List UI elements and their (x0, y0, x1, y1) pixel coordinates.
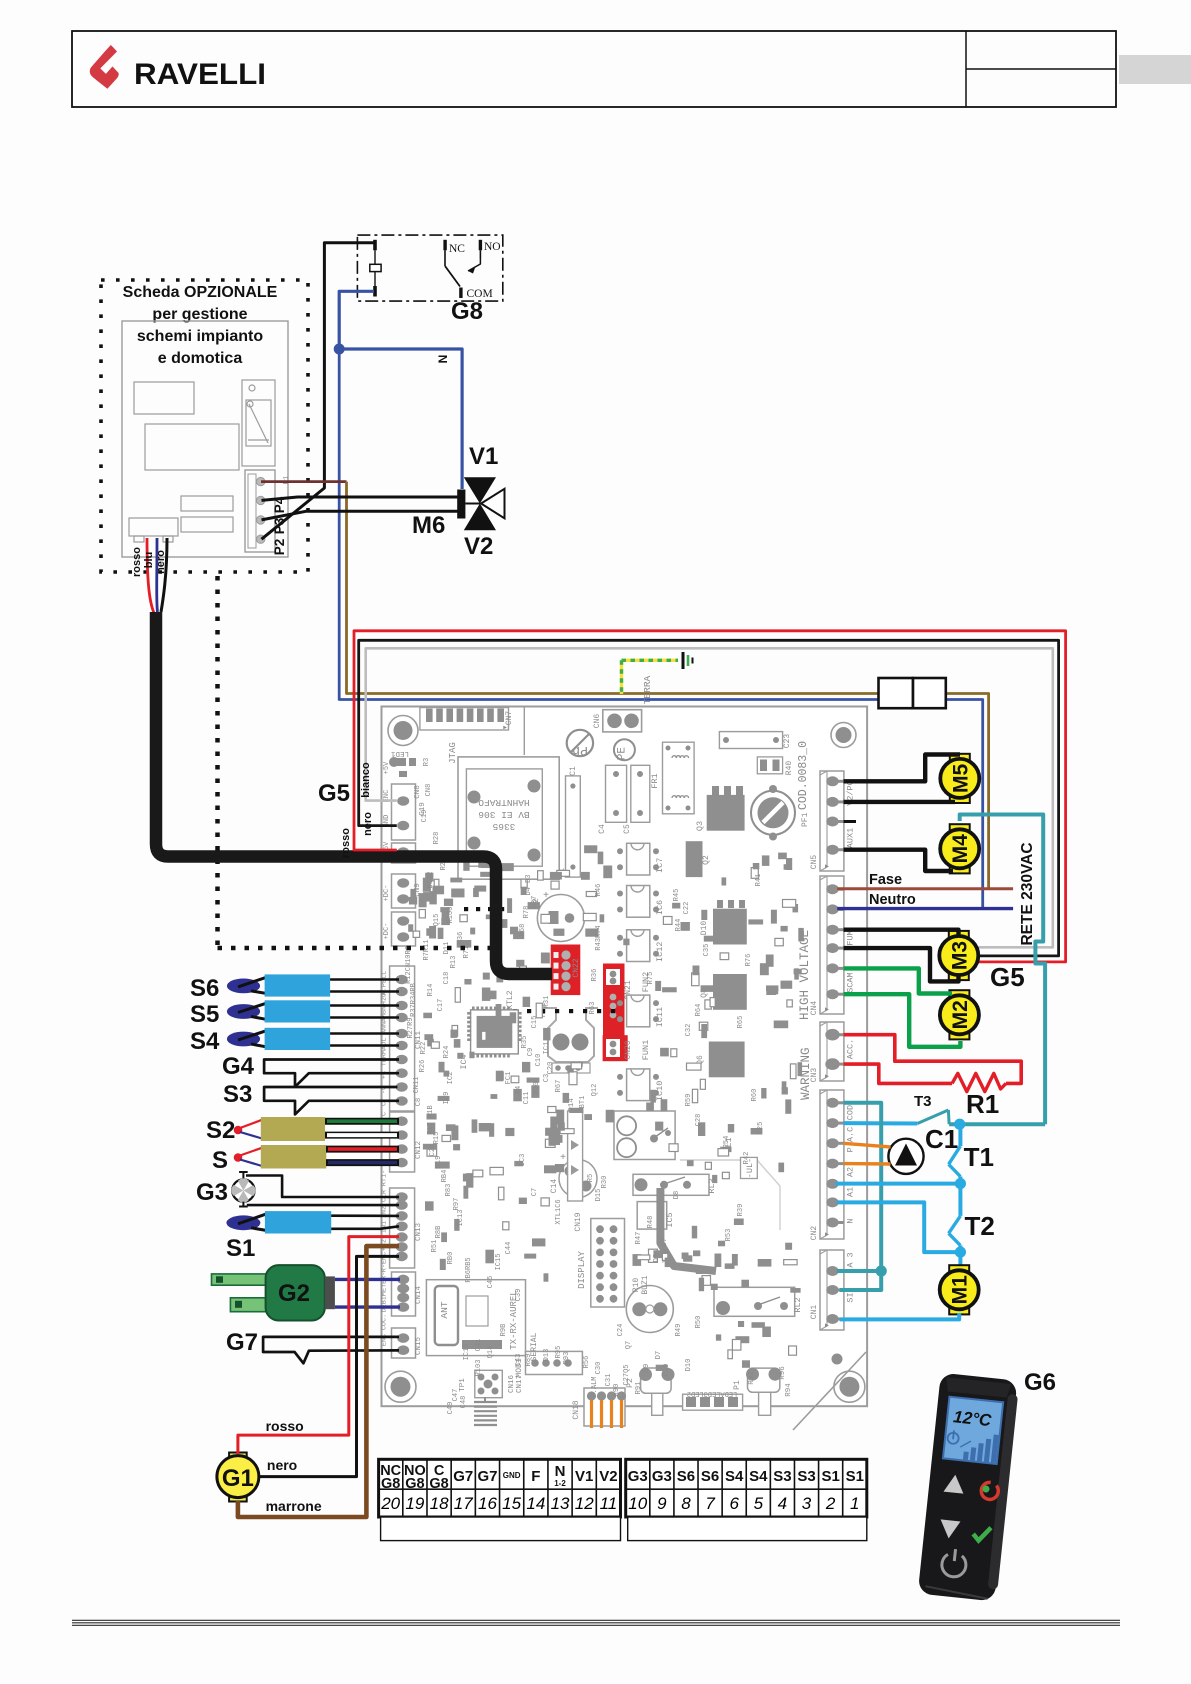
svg-text:17: 17 (454, 1494, 473, 1513)
svg-text:C22: C22 (683, 902, 691, 915)
svg-text:CN5: CN5 (810, 855, 819, 870)
pcb board outline (382, 707, 868, 1407)
svg-text:C8: C8 (415, 1098, 423, 1106)
heatsink HS1 (544, 1008, 598, 1062)
svg-text:R43R74: R43R74 (595, 925, 603, 950)
svg-text:R49: R49 (675, 1324, 683, 1337)
svg-text:blu: blu (143, 552, 155, 569)
wires S6 to CN11 (330, 978, 399, 981)
svg-text:XTL2: XTL2 (506, 990, 515, 1009)
relay G8 switch blade (445, 266, 460, 287)
wire lightblue T2 upper (958, 1184, 962, 1216)
sensor S6 body (265, 974, 331, 996)
svg-text:COD.0083_0: COD.0083_0 (797, 741, 810, 810)
svg-text:R17 R1B: R17 R1B (427, 1105, 435, 1134)
pump C1 (888, 1139, 923, 1174)
svg-text:G2: G2 (278, 1280, 310, 1307)
antenna coil (474, 1401, 497, 1403)
valve V2 triangle (464, 504, 496, 531)
svg-text:C26: C26 (429, 1144, 437, 1157)
svg-text:DISPLAY: DISPLAY (577, 1251, 587, 1289)
svg-text:▶: ▶ (825, 1231, 829, 1238)
svg-text:C23: C23 (783, 734, 792, 749)
sensor S5 body (265, 1000, 331, 1022)
svg-text:▶: ▶ (503, 724, 507, 731)
wire brown fase down to board bus (347, 482, 879, 694)
node blue junction (334, 344, 345, 355)
svg-text:G5: G5 (318, 780, 350, 807)
header frame (72, 31, 1116, 107)
wire blue from G8 coil to node N (339, 291, 374, 349)
svg-text:BV EI 306: BV EI 306 (478, 809, 530, 820)
wire white S2 to CN12 (325, 1132, 399, 1139)
svg-text:13: 13 (551, 1494, 570, 1513)
svg-text:R96: R96 (779, 1366, 787, 1380)
svg-text:R59: R59 (685, 1094, 693, 1107)
svg-text:P.ALM: P.ALM (591, 1376, 599, 1397)
wires G2 navy to CN14 (335, 1278, 400, 1281)
svg-text:S1: S1 (226, 1235, 255, 1262)
wire neutro (837, 907, 1013, 910)
svg-text:IC12: IC12 (655, 942, 665, 962)
svg-text:18: 18 (430, 1494, 449, 1513)
svg-text:D9: D9 (643, 1364, 651, 1372)
led strip LEDALED3LED2 (683, 1394, 743, 1410)
svg-text:Q12: Q12 (591, 1084, 599, 1097)
svg-text:R100: R100 (447, 907, 455, 924)
svg-text:R94: R94 (785, 1383, 793, 1397)
svg-text:D13: D13 (543, 1349, 551, 1362)
svg-text:Q3: Q3 (695, 821, 705, 831)
svg-text:▶: ▶ (825, 863, 829, 870)
wire marrone G1 to CN13 (238, 1246, 399, 1517)
wire teal T3 junction to RETE (949, 1122, 1045, 1126)
svg-text:CN6: CN6 (593, 714, 602, 729)
svg-text:R76: R76 (745, 954, 753, 967)
svg-text:IC16: IC16 (463, 1344, 471, 1361)
svg-text:P.A.C.: P.A.C. (846, 1122, 856, 1153)
svg-text:R78: R78 (523, 906, 531, 919)
buzzer BUZ1 (626, 1286, 673, 1333)
sensor S6 bulb (227, 979, 260, 994)
wire lightblue to M1 (958, 1252, 962, 1266)
svg-text:RB4: RB4 (441, 1170, 449, 1183)
motor M3 (949, 931, 969, 941)
wire green S2 to CN12 (325, 1118, 399, 1125)
svg-text:R53: R53 (725, 1229, 733, 1242)
svg-text:4: 4 (778, 1494, 787, 1513)
svg-text:6: 6 (729, 1494, 739, 1513)
capacitor C23 (719, 732, 782, 749)
svg-text:+: + (543, 891, 549, 902)
svg-text:G6: G6 (1024, 1369, 1056, 1396)
capacitor C1 film (566, 776, 581, 877)
wire M4 black (844, 850, 954, 871)
gray tab top right (1119, 55, 1191, 84)
svg-text:RETE 230VAC: RETE 230VAC (1019, 842, 1036, 945)
svg-text:R19: R19 (435, 1156, 443, 1169)
svg-text:C35: C35 (703, 944, 711, 957)
svg-text:CN2: CN2 (810, 1226, 819, 1241)
svg-text:M3: M3 (948, 941, 971, 970)
svg-text:N: N (555, 1463, 566, 1480)
svg-text:R83: R83 (445, 1184, 453, 1197)
svg-text:CN12: CN12 (415, 1141, 423, 1159)
pcb mounting holes (388, 716, 418, 746)
svg-text:TP1: TP1 (459, 1378, 467, 1392)
sensor S4 body (265, 1028, 331, 1050)
svg-text:IC10: IC10 (655, 1081, 665, 1101)
svg-text:R51: R51 (431, 1240, 439, 1253)
svg-text:C11: C11 (523, 1092, 531, 1105)
relay G8 contact NO (479, 240, 482, 251)
switch T1 (949, 1146, 961, 1164)
optocoupler IC5 (637, 1202, 667, 1230)
svg-text:D8: D8 (673, 1191, 681, 1199)
svg-text:LEDALED3LED2: LEDALED3LED2 (687, 1389, 737, 1397)
capacitor C4 (606, 765, 627, 822)
connector CN3 (820, 1022, 844, 1081)
svg-text:R95: R95 (555, 1346, 563, 1359)
svg-text:S3: S3 (773, 1468, 791, 1485)
wire lightblue A1 (837, 1202, 961, 1252)
svg-text:rosso: rosso (131, 547, 143, 577)
dotted cable route from optional board to CN22 (215, 576, 220, 948)
svg-text:G1: G1 (222, 1465, 254, 1492)
svg-text:LED1: LED1 (391, 749, 410, 757)
gear motor G2 connector (325, 1276, 335, 1309)
relay RL1 (614, 1111, 675, 1160)
svg-text:Pb: Pb (572, 743, 588, 758)
UL box (741, 1157, 758, 1178)
svg-text:R41: R41 (755, 874, 763, 887)
svg-text:IC1: IC1 (543, 1042, 551, 1055)
wire black P3 to valve (262, 511, 459, 520)
svg-text:20: 20 (380, 1494, 400, 1513)
svg-text:COC.: COC. (381, 1314, 389, 1330)
svg-text:PF1: PF1 (801, 812, 810, 827)
wire fase (837, 887, 1013, 890)
svg-text:7: 7 (705, 1494, 715, 1513)
node AL3 junction (876, 1265, 887, 1276)
sensor S2 body (261, 1117, 325, 1141)
wires M5 black (844, 755, 961, 782)
svg-text:F: F (531, 1468, 540, 1485)
wires S5 to CN11 (330, 1004, 399, 1007)
wire blue neutro down to board bus (339, 349, 878, 700)
svg-text:G3: G3 (196, 1179, 228, 1206)
terminal block table right (626, 1459, 867, 1517)
sensor S4 bulb (227, 1032, 260, 1047)
svg-text:C25: C25 (757, 1122, 765, 1135)
ground symbol terra (682, 652, 685, 669)
connector CN1 (820, 1250, 844, 1330)
wire lightblue A2 (836, 1182, 961, 1186)
svg-text:C49: C49 (447, 1402, 455, 1415)
relay RL2 (714, 1287, 795, 1316)
node T3 junction (954, 1119, 965, 1130)
svg-text:CN14: CN14 (415, 1286, 423, 1305)
motor M2 (949, 990, 969, 1000)
svg-text:+DC-: +DC- (383, 885, 391, 902)
svg-text:R30: R30 (601, 1176, 609, 1189)
svg-text:rosso: rosso (340, 828, 352, 858)
svg-text:R42: R42 (743, 1152, 751, 1165)
wire navy S to CN12 (326, 1159, 399, 1166)
microcontroller IC4 (471, 1010, 519, 1054)
svg-text:9: 9 (657, 1494, 667, 1513)
svg-text:R63: R63 (589, 1002, 597, 1015)
svg-text:R68: R68 (519, 924, 527, 937)
connector CN13 (390, 1188, 415, 1268)
wires M3 black (844, 930, 959, 936)
svg-text:NO: NO (484, 241, 501, 253)
svg-text:R35: R35 (521, 1036, 529, 1049)
node T2 junction (955, 1247, 966, 1258)
connector CN4 (820, 876, 844, 1014)
svg-text:RB0: RB0 (447, 1252, 455, 1265)
serial header MOD1 (526, 1351, 583, 1374)
probe G7 (263, 1337, 399, 1363)
svg-text:R65: R65 (737, 1016, 745, 1029)
svg-text:CN22: CN22 (572, 958, 581, 977)
sensor S1 bulb (226, 1215, 260, 1230)
svg-text:▶: ▶ (825, 1322, 829, 1329)
svg-text:Q2: Q2 (702, 855, 711, 865)
svg-text:FUN1: FUN1 (641, 1040, 651, 1060)
svg-text:S1: S1 (821, 1468, 839, 1485)
svg-text:M2: M2 (949, 1000, 972, 1029)
optional board pcb outline (122, 321, 288, 557)
svg-text:C43: C43 (515, 1354, 523, 1367)
mosfet Q6 (709, 1042, 745, 1078)
wires orange to C1 (844, 1143, 891, 1147)
svg-text:TERMAUL: TERMAUL (381, 1038, 389, 1067)
svg-text:G5: G5 (990, 962, 1025, 992)
svg-text:R46: R46 (595, 884, 603, 897)
svg-text:IC2: IC2 (447, 1072, 455, 1085)
motor M1 (949, 1265, 969, 1275)
isolation slot lines (793, 1352, 866, 1430)
resistor R40 (757, 757, 782, 774)
svg-text:D7: D7 (661, 1238, 669, 1246)
wire blu from optional board (155, 538, 159, 612)
svg-text:R20: R20 (533, 1082, 541, 1095)
svg-text:FR1: FR1 (650, 773, 660, 788)
button P1 (748, 1368, 780, 1392)
svg-text:R91: R91 (635, 1382, 643, 1395)
svg-text:R44: R44 (675, 919, 683, 932)
svg-text:V1: V1 (575, 1468, 593, 1485)
svg-text:C17: C17 (437, 999, 445, 1012)
svg-text:R5: R5 (587, 1174, 595, 1182)
connector JTAG CN7 (420, 708, 509, 731)
svg-text:C1: C1 (925, 1124, 958, 1154)
svg-text:D1D2: D1D2 (427, 872, 435, 889)
svg-text:3: 3 (802, 1494, 812, 1513)
transformer T1 HAHNTRAFO (458, 757, 559, 879)
svg-text:Q15: Q15 (433, 914, 441, 927)
svg-text:ANT: ANT (439, 1301, 450, 1318)
svg-text:C19: C19 (421, 810, 429, 823)
svg-text:Q14: Q14 (487, 1346, 495, 1359)
svg-text:12°C: 12°C (952, 1407, 992, 1430)
svg-text:D10: D10 (685, 1359, 693, 1372)
svg-text:marrone: marrone (266, 1498, 322, 1514)
svg-text:P1: P1 (733, 1380, 742, 1390)
svg-text:AUX1: AUX1 (846, 828, 856, 848)
capacitor C5 (631, 765, 650, 822)
svg-text:R47: R47 (635, 1232, 643, 1245)
svg-text:ACC.: ACC. (846, 1039, 856, 1059)
header strip (568, 1111, 583, 1201)
svg-text:IC13: IC13 (457, 1210, 465, 1227)
svg-text:PE: PE (616, 747, 628, 761)
wire rosso G1 to CN13 (238, 1237, 399, 1454)
svg-text:V2: V2 (599, 1468, 617, 1485)
svg-text:+5V: +5V (383, 761, 391, 774)
svg-text:A 3: A 3 (846, 1252, 856, 1267)
svg-text:CN11: CN11 (413, 1077, 421, 1094)
svg-text:nero: nero (155, 550, 167, 574)
svg-text:C20: C20 (547, 1062, 555, 1075)
pcb SMD components scatter (450, 878, 462, 883)
connector CN8 encoder G5 (392, 784, 416, 840)
svg-text:R50: R50 (695, 1316, 703, 1329)
via row (513, 1009, 517, 1013)
svg-text:C14: C14 (550, 1179, 559, 1194)
valve V1 triangle (464, 477, 496, 503)
svg-text:IC7: IC7 (655, 858, 665, 873)
test point TP1 (475, 1370, 503, 1397)
svg-text:JTAG: JTAG (448, 742, 458, 764)
svg-text:C4: C4 (598, 824, 607, 834)
wire rosso from optional board (147, 538, 154, 613)
svg-text:T3: T3 (914, 1093, 932, 1110)
svg-text:IC11: IC11 (655, 1007, 665, 1027)
svg-text:CN20: CN20 (624, 1040, 633, 1059)
wire nero from optional board (161, 538, 167, 612)
connector CN12 (390, 1112, 415, 1172)
svg-text:C27Q5: C27Q5 (623, 1364, 631, 1385)
svg-text:D15: D15 (595, 1189, 603, 1202)
svg-text:S: S (212, 1147, 228, 1174)
svg-text:C5: C5 (623, 824, 632, 834)
svg-text:FUM: FUM (846, 930, 856, 945)
terminal block table left (379, 1459, 621, 1517)
svg-text:R14: R14 (427, 984, 435, 997)
svg-text:M1: M1 (949, 1275, 972, 1304)
svg-text:1: 1 (850, 1494, 859, 1513)
svg-text:C1: C1 (569, 766, 578, 776)
svg-text:RL2: RL2 (793, 1297, 803, 1312)
svg-text:R24: R24 (443, 1046, 451, 1059)
svg-text:V2: V2 (464, 533, 493, 560)
connector CN18 with orange wires (584, 1388, 625, 1426)
svg-text:S4: S4 (725, 1468, 744, 1485)
svg-text:P2: P2 (272, 539, 287, 556)
svg-text:IC15: IC15 (495, 1254, 503, 1271)
svg-text:R54: R54 (723, 1136, 731, 1149)
svg-text:HIGH VOLTAGE: HIGH VOLTAGE (798, 930, 812, 1020)
svg-text:T2: T2 (965, 1211, 995, 1241)
svg-text:R13: R13 (450, 956, 458, 969)
trace IC8 (660, 1188, 716, 1271)
svg-text:S4: S4 (749, 1468, 768, 1485)
wire nero loop around board (359, 640, 1059, 956)
svg-text:R9B: R9B (500, 1324, 508, 1337)
svg-text:S4: S4 (190, 1028, 220, 1055)
wire red S to CN12 (326, 1146, 399, 1153)
svg-text:S3: S3 (797, 1468, 815, 1485)
fan G3 (239, 1171, 248, 1173)
wires M2 green (844, 968, 953, 993)
relay G8 box (357, 235, 502, 301)
svg-text:R45: R45 (673, 889, 681, 902)
optional board dotted box (101, 280, 308, 572)
svg-text:e domotica: e domotica (158, 350, 243, 367)
svg-text:S6: S6 (677, 1468, 695, 1485)
svg-text:IC9: IC9 (443, 1092, 451, 1105)
svg-text:G3: G3 (628, 1468, 648, 1485)
relay G8 contact COM (459, 288, 462, 299)
connector CN14 (392, 1272, 416, 1316)
svg-text:nero: nero (362, 812, 374, 836)
svg-text:R26: R26 (419, 1060, 427, 1073)
svg-text:AMBN: AMBN (381, 1006, 389, 1022)
wire black P4 to valve (262, 497, 459, 500)
svg-text:CN18: CN18 (572, 1400, 581, 1419)
svg-text:R97: R97 (453, 1198, 461, 1211)
svg-text:R93: R93 (563, 1352, 571, 1365)
svg-text:C24: C24 (617, 1324, 625, 1337)
svg-text:2: 2 (825, 1494, 836, 1513)
svg-text:R67: R67 (555, 1080, 563, 1093)
symbol Pb (567, 730, 593, 756)
svg-text:M4: M4 (949, 834, 972, 863)
wire stub CN5 pin3 (844, 820, 857, 823)
svg-text:R10: R10 (632, 1278, 641, 1293)
wire black to G8 coil (262, 243, 374, 540)
svg-text:T1: T1 (964, 1142, 994, 1172)
svg-text:R4: R4 (515, 1086, 523, 1094)
svg-text:D4 D3: D4 D3 (525, 874, 533, 895)
svg-text:Q7: Q7 (625, 1341, 633, 1349)
svg-text:D9: D9 (653, 1254, 661, 1262)
connector CN5 (820, 771, 844, 871)
svg-text:G7: G7 (226, 1329, 258, 1356)
potentiometer PF1 (751, 791, 795, 835)
fuse F2 (913, 678, 946, 708)
svg-text:C39: C39 (515, 1289, 523, 1302)
svg-text:C47: C47 (452, 1389, 460, 1402)
connector CN6 (603, 710, 642, 732)
wire nero G1 to CN13 (259, 1256, 399, 1476)
wire M4 cyan to RETE (960, 815, 1045, 1125)
connector CN22 red (551, 945, 581, 996)
relay G8 contact NC (443, 240, 446, 251)
svg-text:C: C (381, 1102, 389, 1106)
transistor Q3 (707, 795, 745, 831)
svg-text:C48: C48 (460, 1396, 468, 1409)
wire rosso loop around board (354, 631, 1066, 962)
wire blue N to valve (339, 349, 462, 489)
svg-text:C32: C32 (685, 1024, 693, 1037)
capacitor C2 electrolytic (537, 895, 584, 942)
svg-text:TERRA: TERRA (642, 675, 653, 704)
auger motor G1 (229, 1453, 247, 1461)
motor M4 (950, 824, 970, 834)
